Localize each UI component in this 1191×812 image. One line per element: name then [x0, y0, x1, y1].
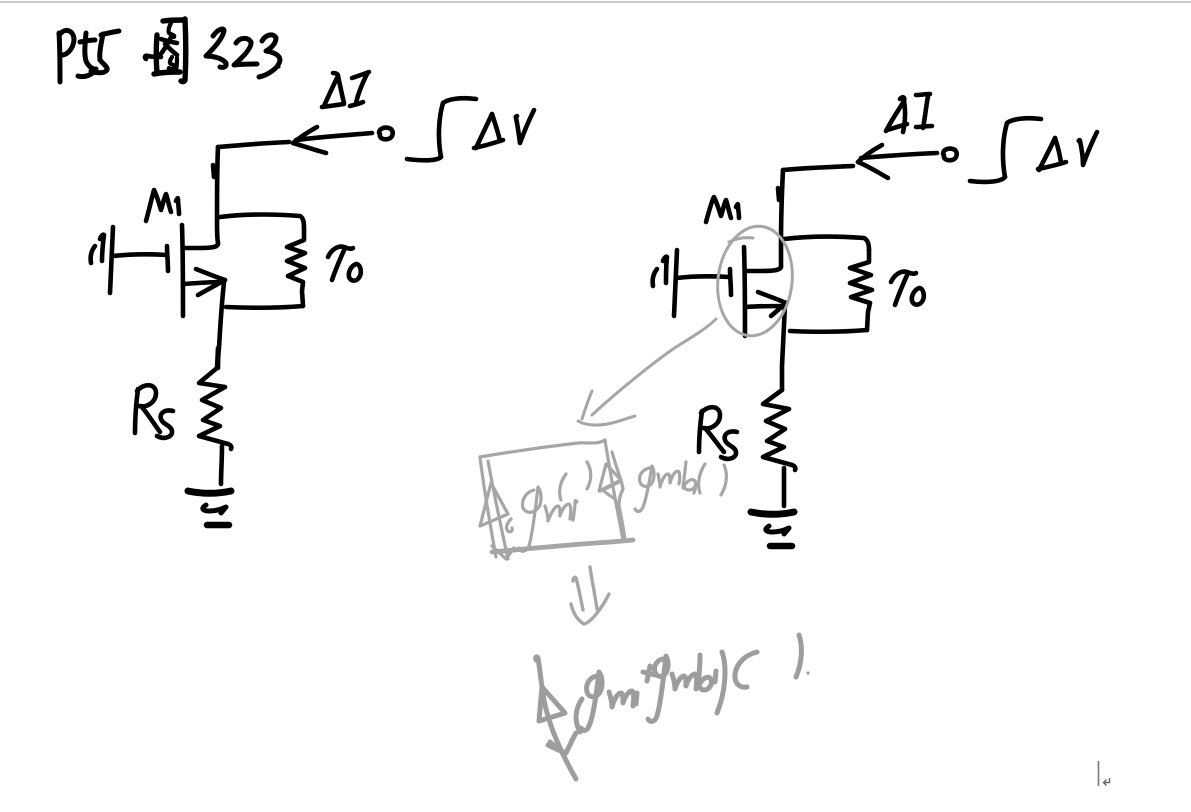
- return mark: [1104, 778, 1110, 786]
- right current source symbol: [612, 452, 625, 540]
- MOSFET M1 label: [706, 197, 731, 222]
- node o: [943, 149, 957, 161]
- label Delta-V: [476, 114, 492, 148]
- gray box: [480, 440, 726, 559]
- channel bar: [744, 247, 745, 336]
- source arrow: [196, 269, 225, 280]
- label Delta-V: [1039, 138, 1055, 170]
- resistor ro: [850, 250, 872, 330]
- resistor Rs: [763, 390, 792, 465]
- drain-ro top wire: [784, 237, 869, 250]
- output arrow (points left): [861, 153, 937, 158]
- ro bottom wire: [226, 306, 303, 308]
- ro bottom wire: [790, 330, 867, 332]
- integral sign: [1007, 118, 1041, 123]
- source arrow: [758, 292, 786, 303]
- resistor Rs: [199, 348, 228, 444]
- leader arrow from circle to box: [578, 319, 716, 425]
- title 3.23.: [206, 29, 281, 77]
- source vertical wire: [218, 282, 224, 368]
- gate wire: [677, 276, 729, 278]
- gate input bar: [110, 227, 113, 293]
- left current source symbol: [488, 461, 508, 559]
- label Delta-I: [324, 73, 338, 106]
- wire: top corner and vertical to drain: [218, 142, 289, 147]
- gate input bar: [674, 250, 677, 316]
- drain bend to channel: [184, 243, 218, 248]
- source vertical wire: [782, 305, 785, 390]
- double down arrow: [571, 567, 609, 624]
- gate plate: [167, 246, 168, 271]
- source lead: [184, 282, 223, 284]
- label Delta-I: [886, 97, 904, 131]
- title hanzi 图: [145, 19, 186, 82]
- drain-ro top wire: [220, 215, 304, 230]
- Rs label: [699, 411, 702, 452]
- gate input (: [653, 269, 657, 286]
- channel bar: [182, 225, 183, 316]
- source lead: [746, 306, 785, 307]
- ro label: [891, 272, 916, 282]
- drain bend to channel: [746, 266, 781, 271]
- node o: [379, 128, 393, 140]
- gate plate: [730, 269, 731, 295]
- gate wire: [113, 254, 167, 256]
- title P55: [59, 30, 119, 82]
- ground: [751, 512, 794, 514]
- gmb1 text: [635, 466, 654, 511]
- gm1 text: [519, 487, 541, 551]
- text cursor: [1098, 761, 1100, 786]
- ro label: [328, 247, 353, 257]
- Rs label: [135, 389, 138, 433]
- output arrow (points left): [296, 133, 372, 140]
- gate input (: [91, 246, 95, 263]
- circle highlight around mosfet: [712, 222, 799, 340]
- top rule line: [0, 1, 1191, 3]
- resistor ro: [287, 230, 305, 306]
- MOSFET M1 label: [146, 190, 171, 221]
- bottom formula: [536, 635, 810, 779]
- ground: [188, 491, 231, 493]
- wire: top corner and vertical to drain: [783, 166, 853, 170]
- integral sign: [443, 98, 476, 103]
